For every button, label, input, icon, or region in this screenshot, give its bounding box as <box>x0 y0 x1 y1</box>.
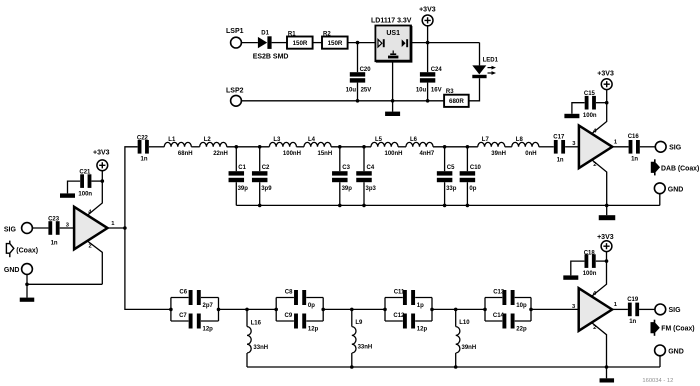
junction L10 <box>454 308 458 312</box>
node GND input <box>4 264 33 275</box>
svg-text:C22: C22 <box>137 135 149 141</box>
inductor L3 100nH <box>269 137 301 157</box>
wire +3V3 down <box>427 26 429 43</box>
op-amp U1 <box>74 207 107 250</box>
node SIG DAB <box>655 141 681 152</box>
node GND DAB <box>654 183 683 194</box>
wire GND to pin2 <box>27 283 102 285</box>
capacitor C4 3p3 <box>356 147 376 207</box>
svg-text:L4: L4 <box>308 137 316 143</box>
capacitors C8 0p / C9 12p <box>274 290 325 333</box>
svg-text:L2: L2 <box>204 137 212 143</box>
pin 4 label U3 <box>593 291 597 297</box>
wire to FM ground <box>606 367 608 378</box>
svg-text:39p: 39p <box>342 186 353 192</box>
svg-text:39p: 39p <box>238 186 249 192</box>
wire C20 to ground rail <box>356 83 360 103</box>
svg-text:3p3: 3p3 <box>366 186 377 192</box>
svg-text:LD1117 3.3V: LD1117 3.3V <box>371 17 412 24</box>
junction GND input <box>25 283 29 287</box>
wire C17 to pin3 U2 <box>565 146 579 148</box>
svg-text:C16: C16 <box>628 134 640 140</box>
svg-text:+3V3: +3V3 <box>93 149 110 156</box>
svg-text:3p9: 3p9 <box>261 186 272 192</box>
svg-text:33p: 33p <box>446 186 457 192</box>
wire junction down to C24 <box>427 43 429 73</box>
svg-text:68nH: 68nH <box>178 151 193 157</box>
wire C15 to ground <box>572 103 585 114</box>
wire pin2 U3 <box>592 323 607 367</box>
svg-text:C21: C21 <box>79 170 91 176</box>
wire L8 to C17 <box>539 146 554 148</box>
pin 2 label U2 <box>593 162 596 168</box>
wire +3V3 left down <box>101 171 103 181</box>
svg-text:SIG: SIG <box>4 226 17 233</box>
inductor L4 15nH <box>304 137 332 157</box>
svg-text:+3V3: +3V3 <box>597 234 614 241</box>
coax plug symbol input <box>6 241 38 258</box>
junction C4 <box>362 145 366 149</box>
capacitor C20 10u 25V <box>346 67 372 93</box>
svg-text:16V: 16V <box>431 87 442 93</box>
wire C16 to SIG <box>640 146 656 148</box>
junction C5 <box>443 145 447 149</box>
svg-text:150R: 150R <box>293 40 308 47</box>
resistor R1 150R <box>287 31 313 48</box>
junction U1 output <box>123 226 127 230</box>
pin 1 label U3 <box>614 302 618 308</box>
svg-text:0p: 0p <box>469 186 476 192</box>
node SIG FM <box>655 304 681 315</box>
svg-text:12p: 12p <box>308 327 319 333</box>
inductor L1 68nH <box>164 137 192 157</box>
ground below US1 <box>385 112 400 116</box>
svg-text:4nH7: 4nH7 <box>420 151 435 157</box>
node GND FM <box>655 345 684 356</box>
svg-text:0nH: 0nH <box>525 151 536 157</box>
svg-text:(Coax): (Coax) <box>16 248 38 255</box>
capacitor C21 100n <box>78 170 92 198</box>
svg-text:R2: R2 <box>323 31 331 37</box>
wire L1 to L2 <box>191 146 199 148</box>
svg-text:12p: 12p <box>417 327 428 333</box>
wire L6 to L7 <box>433 146 478 148</box>
pin 4 label U1 <box>88 210 92 216</box>
svg-text:100n: 100n <box>583 113 597 119</box>
capacitor C23 1n <box>48 216 60 246</box>
inductor L6 4nH7 <box>406 137 435 157</box>
capacitors C6 2p7 / C7 12p <box>169 290 220 333</box>
resistor R3 680R <box>444 89 469 107</box>
svg-text:L16: L16 <box>251 320 262 326</box>
svg-text:R1: R1 <box>288 31 296 37</box>
op-amp U2 (DAB) <box>579 126 612 169</box>
svg-text:C2: C2 <box>262 165 270 171</box>
svg-text:L1: L1 <box>168 137 176 143</box>
svg-text:10u: 10u <box>346 87 357 93</box>
svg-text:33nH: 33nH <box>358 345 373 351</box>
wire GND FM down <box>659 356 661 367</box>
wire C23 to pin3 <box>60 227 74 229</box>
svg-text:15nH: 15nH <box>318 151 333 157</box>
svg-text:L6: L6 <box>410 137 418 143</box>
svg-text:FM (Coax): FM (Coax) <box>661 326 694 333</box>
svg-text:C17: C17 <box>553 135 565 141</box>
svg-text:LED1: LED1 <box>483 58 499 64</box>
LED1 <box>472 43 498 79</box>
wire C15 to junction <box>596 102 607 104</box>
wire C19 to SIG <box>639 308 655 310</box>
junction C1 <box>235 145 239 149</box>
svg-text:C4: C4 <box>367 165 375 171</box>
inductor L10 39nH <box>454 309 476 368</box>
capacitors C11 1p / C12 12p <box>383 290 434 333</box>
wire SIG to C23 <box>32 227 48 229</box>
node LSP2 <box>226 88 244 107</box>
capacitor C3 39p <box>332 147 352 207</box>
svg-text:C20: C20 <box>360 67 372 73</box>
wire C21 to ground <box>68 181 81 193</box>
wire C9 group to C11 group <box>323 308 385 310</box>
svg-text:C13: C13 <box>493 290 505 296</box>
junction at US1 output <box>426 41 430 45</box>
wire C22 to L1 <box>149 146 164 148</box>
svg-text:100n: 100n <box>78 191 92 197</box>
capacitor C18 100n <box>583 250 597 277</box>
inductor L2 22nH <box>200 137 228 157</box>
svg-text:+3V3: +3V3 <box>597 70 614 77</box>
svg-text:C15: C15 <box>584 91 596 97</box>
wire pin4 U2 <box>592 103 607 134</box>
svg-text:39nH: 39nH <box>491 151 506 157</box>
junction L9 <box>350 308 354 312</box>
wire +3V3 DAB down <box>606 90 608 103</box>
resistor R2 150R <box>322 31 348 48</box>
footer part number <box>642 378 673 384</box>
wire L7 to L8 <box>505 146 512 148</box>
svg-text:C24: C24 <box>431 67 443 73</box>
junction C10 <box>466 145 470 149</box>
wire pin4 opamp U1 <box>87 181 102 215</box>
svg-text:R3: R3 <box>446 89 454 95</box>
capacitor C19 1n <box>627 297 639 325</box>
svg-text:C3: C3 <box>342 165 350 171</box>
svg-text:SIG: SIG <box>669 145 682 152</box>
svg-text:D1: D1 <box>261 30 269 36</box>
junction C2 <box>258 145 262 149</box>
svg-text:C12: C12 <box>393 313 405 319</box>
inductor L9 33nH <box>350 309 372 368</box>
svg-text:C19: C19 <box>627 297 639 303</box>
svg-text:1n: 1n <box>141 157 148 163</box>
wire C12 group to C13 group <box>432 308 485 310</box>
capacitor C5 33p <box>437 147 457 207</box>
pin 3 label U1 <box>66 223 70 229</box>
capacitor C1 39p <box>229 147 249 206</box>
svg-text:C23: C23 <box>48 216 60 222</box>
wire U2 output <box>612 146 628 148</box>
wire C21 to junction <box>92 180 103 182</box>
wire R1 to R2 <box>313 42 322 44</box>
svg-text:680R: 680R <box>449 98 464 105</box>
junction DAB ground <box>605 204 609 208</box>
wire C14 group to pin3 U3 <box>531 308 579 310</box>
svg-text:C10: C10 <box>470 165 482 171</box>
svg-text:DAB (Coax): DAB (Coax) <box>661 165 699 172</box>
svg-text:2p7: 2p7 <box>203 303 214 309</box>
svg-text:L8: L8 <box>516 137 524 143</box>
wire L5 to L6 <box>398 146 406 148</box>
svg-text:100n: 100n <box>583 271 597 277</box>
wire D1 to R1 <box>272 42 287 44</box>
svg-text:12p: 12p <box>203 327 214 333</box>
junction FM ground <box>605 365 609 369</box>
capacitor C16 1n <box>628 134 640 162</box>
junction at C21 <box>101 179 105 183</box>
pin 4 label U2 <box>593 128 597 134</box>
junction at C20 top <box>356 41 360 45</box>
ground at C18 <box>563 275 578 279</box>
svg-text:1p: 1p <box>417 303 424 309</box>
svg-text:10u: 10u <box>416 87 427 93</box>
svg-text:22nH: 22nH <box>213 151 228 157</box>
wire LED1 to R3 <box>469 78 480 101</box>
svg-text:L7: L7 <box>482 137 490 143</box>
svg-text:L5: L5 <box>375 137 383 143</box>
wire U1 output <box>108 227 125 229</box>
svg-text:C1: C1 <box>238 165 246 171</box>
svg-text:1n: 1n <box>629 319 636 325</box>
wire LSP1 to D1 <box>241 42 258 44</box>
wire trunk up to DAB filter <box>125 147 138 228</box>
wire U3 output <box>612 308 628 310</box>
pin 2 label U3 <box>593 325 596 331</box>
svg-text:1n: 1n <box>631 156 638 162</box>
svg-text:C5: C5 <box>447 165 455 171</box>
inductor L16 33nH <box>247 309 268 367</box>
junction L16 <box>245 308 249 312</box>
svg-text:22p: 22p <box>516 327 527 333</box>
svg-text:US1: US1 <box>386 30 400 37</box>
inductor L5 100nH <box>371 137 403 157</box>
wire LSP2 ground rail <box>241 100 444 102</box>
svg-text:ES2B SMD: ES2B SMD <box>253 53 289 60</box>
svg-text:C18: C18 <box>584 250 596 256</box>
svg-text:25V: 25V <box>361 87 372 93</box>
wire L4 to L5 <box>331 146 371 148</box>
junction C18 <box>605 259 609 263</box>
pin 2 label U1 <box>89 243 92 249</box>
svg-text:GND: GND <box>668 186 684 193</box>
wire C24 to ground rail <box>426 83 430 103</box>
ground DAB opamp <box>599 215 616 220</box>
svg-text:33nH: 33nH <box>253 345 268 351</box>
svg-text:+3V3: +3V3 <box>419 6 436 13</box>
wire L2 to L3 <box>227 146 270 148</box>
capacitor C15 100n <box>583 91 597 119</box>
node SIG input <box>4 223 33 234</box>
svg-text:10p: 10p <box>516 303 527 309</box>
pin 3 label U2 <box>572 141 576 147</box>
power +3V3 FM <box>597 234 614 252</box>
wire L3 to L4 <box>296 146 304 148</box>
svg-text:GND: GND <box>4 267 20 274</box>
wire C7 group to C8 group <box>219 308 277 310</box>
svg-text:SIG: SIG <box>669 307 682 314</box>
node LSP1 <box>226 28 244 48</box>
capacitors C13 10p / C14 22p <box>483 290 533 333</box>
ground FM opamp <box>600 378 615 382</box>
wire FM bottom rail <box>247 366 660 368</box>
svg-text:L3: L3 <box>273 137 281 143</box>
svg-text:C7: C7 <box>179 313 187 319</box>
svg-text:0p: 0p <box>308 303 315 309</box>
svg-text:C6: C6 <box>179 290 187 296</box>
power +3V3 DAB <box>597 70 614 89</box>
capacitor C24 10u 16V <box>416 67 443 93</box>
svg-text:L10: L10 <box>459 320 470 326</box>
wire GND DAB down <box>659 194 661 206</box>
ground at C21 <box>60 193 75 197</box>
regulator US1 LD1117 3.3V <box>371 17 412 61</box>
junction C15 <box>605 101 609 105</box>
svg-text:150R: 150R <box>328 40 343 47</box>
diode D1 (ES2B SMD) <box>253 30 289 60</box>
wire C18 to ground <box>571 261 585 275</box>
svg-text:GND: GND <box>668 348 684 355</box>
wire GND junction to ground <box>26 284 28 297</box>
svg-text:LSP2: LSP2 <box>226 88 244 95</box>
wire to DAB ground <box>606 205 608 215</box>
capacitor C10 0p <box>460 147 482 207</box>
svg-text:C9: C9 <box>285 313 293 319</box>
svg-text:100nH: 100nH <box>283 151 301 157</box>
pin 3 label U3 <box>572 304 576 310</box>
wire junction down to C20 <box>357 43 359 73</box>
svg-text:L9: L9 <box>355 320 363 326</box>
svg-text:C14: C14 <box>493 313 505 319</box>
wire R2 to US1 input <box>348 42 376 44</box>
capacitor C22 1n <box>137 135 149 162</box>
wire pin2 opamp U1 <box>87 241 102 284</box>
wire C18 to junction <box>596 260 607 262</box>
pin 1 label U1 <box>111 221 115 227</box>
wire GND down to junction <box>26 274 28 284</box>
wire pin4 U3 <box>592 261 607 296</box>
capacitor C17 1n <box>553 135 565 164</box>
svg-text:160034 - 12: 160034 - 12 <box>642 378 673 384</box>
svg-text:1n: 1n <box>557 158 564 164</box>
pin 1 label U2 <box>614 140 618 146</box>
connector DAB coax <box>651 159 699 175</box>
wire trunk down to FM filter <box>125 228 171 309</box>
power +3V3 left <box>93 149 110 170</box>
connector FM coax <box>651 320 695 336</box>
ground at C15 <box>564 114 579 118</box>
wire +3V3 FM down <box>606 252 608 262</box>
svg-text:39nH: 39nH <box>462 345 477 351</box>
wire DAB bottom rail <box>236 204 660 206</box>
wire US1 output to LED branch <box>411 42 479 44</box>
power +3V3 top <box>419 6 436 25</box>
capacitor C2 3p9 <box>252 147 272 207</box>
inductor L7 39nH <box>478 137 506 157</box>
wire US1 ground <box>391 61 395 111</box>
ground input <box>20 298 35 302</box>
svg-text:LSP1: LSP1 <box>226 28 244 35</box>
svg-text:1n: 1n <box>51 240 58 246</box>
svg-text:C11: C11 <box>394 290 405 296</box>
junction C3 <box>338 145 342 149</box>
op-amp U3 (FM) <box>579 288 612 331</box>
wire pin2 U2 <box>592 160 607 206</box>
svg-text:100nH: 100nH <box>385 151 403 157</box>
svg-text:C8: C8 <box>285 290 293 296</box>
inductor L8 0nH <box>512 137 539 157</box>
